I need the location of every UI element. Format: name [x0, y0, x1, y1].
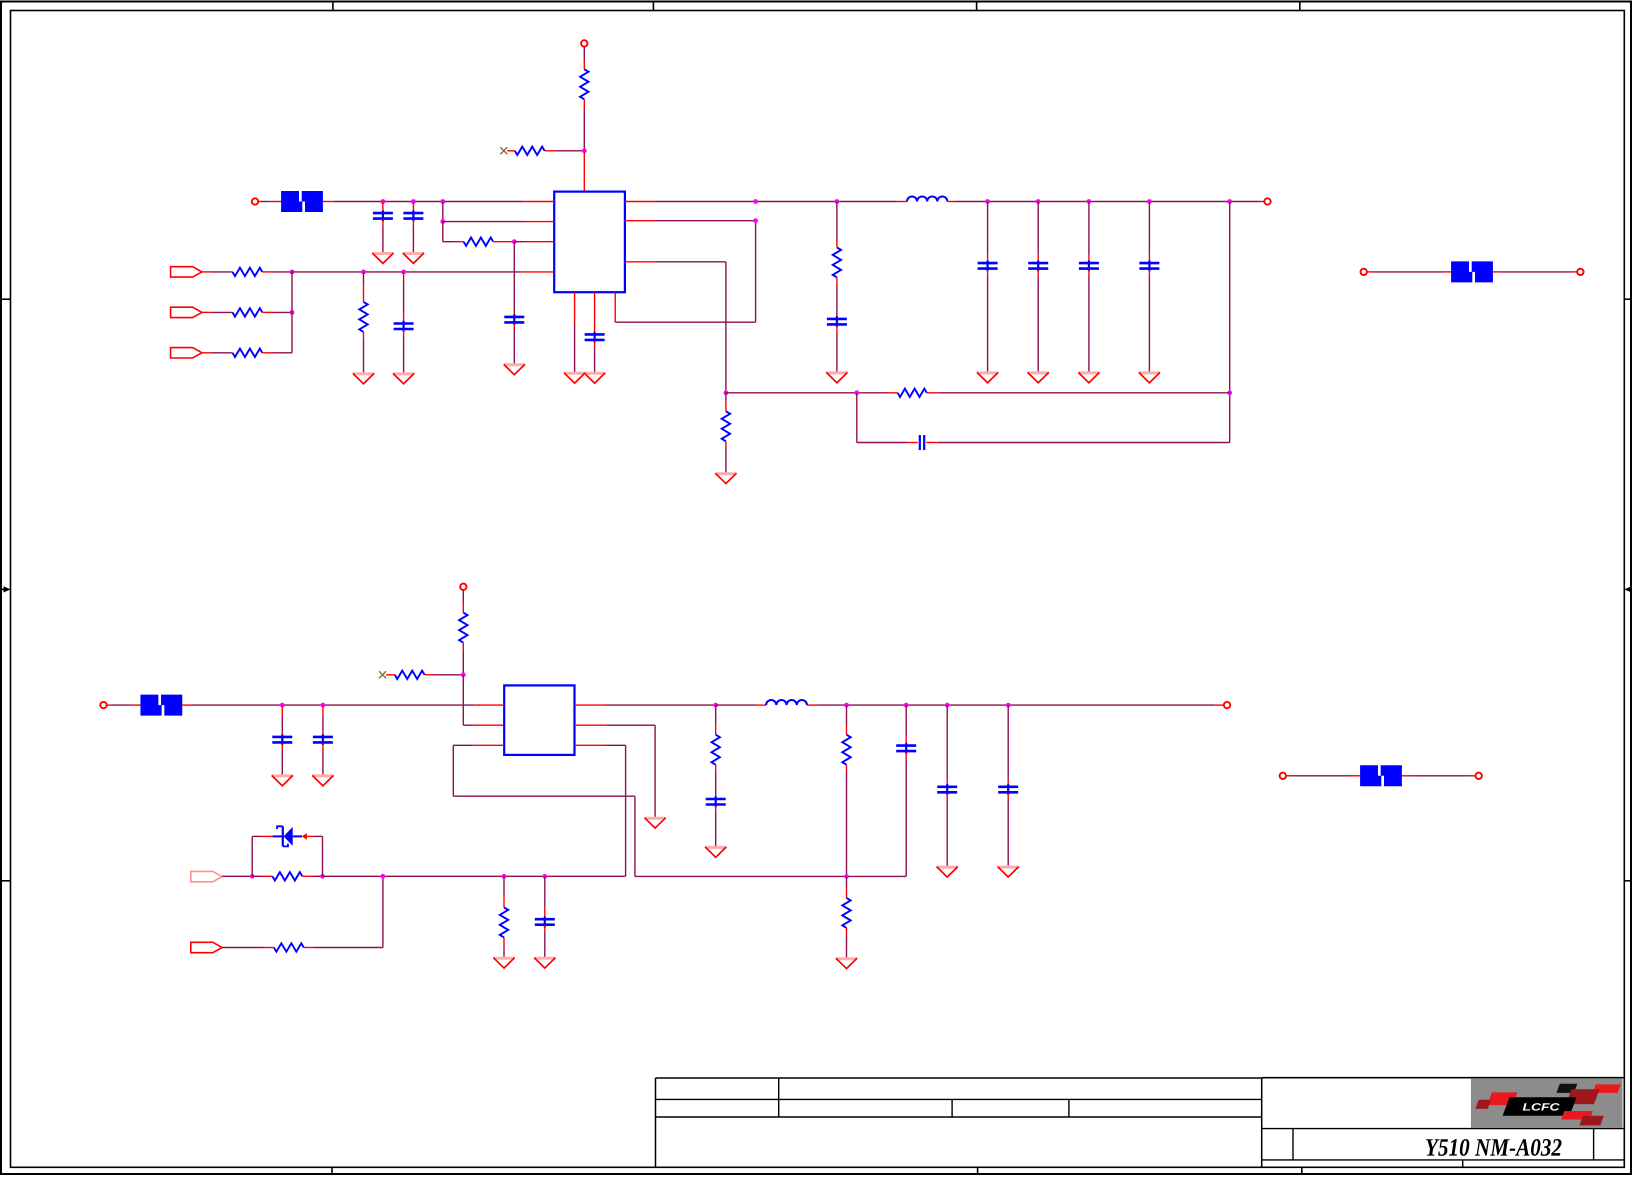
ground under snubber	[826, 372, 847, 382]
connector CN5 (bottom)	[191, 942, 222, 952]
resistor (pullup, top circuit)	[580, 69, 588, 99]
wire port to jumper (bottom right)	[1286, 775, 1360, 777]
wire pullup to node EN2	[462, 643, 464, 675]
junction sense rail / CN1	[290, 270, 295, 275]
wire C2 to ground	[412, 220, 414, 253]
wire resistor to diode right node	[302, 875, 322, 877]
wire diode loop left vertical	[252, 836, 272, 876]
wire input port to jumper (bottom)	[107, 704, 141, 706]
wire from pullup resistor to node EN	[583, 99, 585, 151]
capacitor C1 (input)	[373, 211, 393, 222]
junction FB rail / filter cap	[542, 874, 547, 879]
wire CN4 to rail	[222, 875, 252, 877]
wire series resistor to node EN2	[425, 674, 464, 676]
wire IC out pin2	[625, 220, 756, 222]
wire rail to C12	[946, 705, 948, 786]
junction sense rail / C4	[401, 270, 406, 275]
resistor (no-connect series, top circuit)	[515, 147, 545, 155]
power port (top circuit VIN pullup)	[581, 40, 587, 46]
capacitor (snubber, bottom)	[706, 796, 726, 807]
wire C13 to ground	[1007, 793, 1009, 865]
no-connect X (bottom circuit)	[379, 671, 386, 678]
output port (top rail)	[1264, 198, 1270, 204]
port left of series jumper (top)	[1361, 269, 1367, 275]
port right of series jumper (top)	[1577, 269, 1583, 275]
junction bottom rail / divider top	[844, 703, 849, 708]
junction sense rail / R divider	[361, 270, 366, 275]
wire FB rail to divider resistor lower	[846, 876, 848, 898]
wire U2 out pin1 to rail	[575, 704, 716, 706]
resistor (divider upper, bottom)	[842, 735, 850, 765]
junction bottom rail / feedforward cap	[904, 703, 909, 708]
power port (bottom circuit pullup)	[460, 584, 466, 590]
wire resistor to sense rail	[262, 271, 292, 273]
jumper/fuse F4 (bottom right)	[1360, 765, 1402, 786]
junction node EN2	[461, 672, 466, 677]
junction pin2 row	[440, 219, 445, 224]
resistor (CN1 series)	[233, 268, 263, 276]
junction bottom rail / C11	[321, 703, 326, 708]
wire C4 to ground	[403, 330, 405, 373]
wire pin3 node to IC pin 3	[514, 241, 554, 243]
ground under snubber (bottom)	[705, 847, 726, 857]
wire rail to inductor (bottom)	[716, 704, 766, 706]
wire IC pin FB to divider	[625, 262, 726, 393]
capacitor (feedforward, bottom)	[896, 743, 916, 754]
ground under feedback resistor	[715, 473, 736, 483]
wire snubber resistor to cap (bottom)	[715, 765, 717, 799]
wire Cout4 to ground	[1148, 270, 1150, 372]
junction FB node	[724, 390, 729, 395]
wire U2 pin2 to ground	[575, 725, 656, 817]
jumper/fuse F1 (top rail)	[281, 191, 323, 212]
resistor (CN2 series)	[233, 308, 263, 316]
resistor (no-connect series, bottom)	[395, 671, 425, 679]
capacitor C10 (input, bottom)	[272, 734, 292, 745]
junction bottom out rail / snubber	[713, 703, 718, 708]
wire rail to feedforward cap (bottom)	[905, 705, 907, 745]
capacitor Cout4 (output)	[1139, 261, 1159, 272]
wire rail to snubber resistor (bottom)	[715, 705, 717, 735]
output port (bottom rail)	[1224, 702, 1230, 708]
input port (bottom rail)	[100, 702, 106, 708]
resistor (FB pulldown, bottom)	[500, 907, 508, 937]
wire Cout2 to ground	[1037, 270, 1039, 372]
capacitor C11 (input, bottom)	[313, 734, 333, 745]
wire input port to jumper	[258, 201, 281, 203]
ground under C5	[584, 373, 605, 383]
junction pin3 node	[512, 239, 517, 244]
capacitor C12 (output, bottom)	[937, 784, 957, 795]
wire IC out pin1 to output rail	[625, 201, 897, 203]
junction output rail / Cout3	[1087, 199, 1092, 204]
junction FB rail / CN5 branch	[381, 874, 386, 879]
wire Cout1 to ground	[987, 270, 989, 372]
inductor L2 (bottom)	[766, 700, 807, 705]
wire resistor to ground	[363, 332, 365, 373]
ground under Cout1	[977, 372, 998, 382]
ground under FB filter cap	[534, 958, 555, 968]
ground under C10	[272, 775, 293, 785]
ground under sense resistor	[353, 373, 374, 383]
port left of series jumper (bottom)	[1280, 773, 1286, 779]
wire jumper to port (bottom right)	[1402, 775, 1476, 777]
wire divider lower to ground	[846, 928, 848, 958]
resistor (pullup, bottom)	[459, 613, 467, 643]
wire Cout3 to ground	[1088, 270, 1090, 372]
wire snubber capacitor to ground	[836, 326, 838, 372]
ground under IC pin A	[564, 373, 585, 383]
input connector CN2 (middle)	[171, 307, 202, 317]
wire comp branch down-right	[857, 393, 918, 443]
wire rail to C11	[322, 705, 324, 736]
wire pulldown resistor to ground	[503, 937, 505, 957]
port right of series jumper (bottom)	[1476, 773, 1482, 779]
ground under C1	[372, 253, 393, 263]
capacitor C3 (soft-start)	[504, 314, 524, 325]
wire feedforward cap to feedback tap	[926, 442, 1229, 444]
wire port to jumper (top right)	[1367, 271, 1452, 273]
resistor (CN5 series)	[274, 943, 304, 951]
wire no-connect to series resistor	[507, 150, 515, 152]
junction feedback vertical / rail2	[1227, 390, 1232, 395]
capacitor C5 (bootstrap)	[585, 332, 605, 343]
wire no-connect to series resistor (bottom)	[386, 674, 395, 676]
wire lower resistor to ground	[725, 441, 727, 472]
jumper/fuse F2 (top right)	[1451, 261, 1493, 282]
ground under C3	[504, 364, 525, 374]
wire CN5 resistor to FB rail	[304, 876, 383, 947]
resistor (divider lower, bottom)	[842, 898, 850, 928]
ground under C12	[937, 867, 958, 877]
wire FB rail right segment	[927, 392, 1230, 394]
input port (top rail)	[252, 198, 258, 204]
wire IC GND pin to ground	[574, 292, 576, 372]
junction FB rail / pulldown resistor	[502, 874, 507, 879]
wire rail to capacitor C1	[382, 202, 384, 213]
capacitor (snubber, top)	[827, 316, 847, 327]
wire sense rail to IC pin 4	[292, 271, 554, 273]
wire FB rail left segment	[726, 392, 898, 394]
junction FB rail / divider	[844, 874, 849, 879]
wire feedback tap vertical	[1229, 202, 1231, 443]
wire C5 to ground	[594, 341, 596, 372]
junction bottom rail / C10	[280, 703, 285, 708]
ground under Cout4	[1139, 372, 1160, 382]
resistor (snubber, top)	[833, 247, 841, 277]
ground under Cout2	[1028, 372, 1049, 382]
capacitor C13 (output, bottom)	[998, 784, 1018, 795]
wire jumper to port (top right)	[1493, 271, 1578, 273]
ground under C13	[998, 867, 1019, 877]
wire divider upper to FB rail	[846, 765, 848, 877]
wire CN2 to resistor	[202, 311, 233, 313]
wire inductor to output caps	[947, 201, 1264, 203]
wire snubber resistor to capacitor	[836, 277, 838, 318]
wire port to pullup resistor (bottom)	[462, 590, 464, 613]
junction top rail / C2	[411, 199, 416, 204]
wire C11 to ground	[322, 744, 324, 775]
wire pin2 junction down to pin3 row	[443, 222, 464, 242]
wire rail to Cout3	[1088, 202, 1090, 263]
junction output rail / feedback tap	[1227, 199, 1232, 204]
document number text	[1426, 1139, 1561, 1156]
wire rail to inductor	[897, 201, 908, 203]
wire IC U2 pin3 loop	[453, 745, 906, 876]
resistor (IC pin3 series, top)	[464, 238, 494, 246]
ground under FB pulldown	[493, 958, 514, 968]
resistor (feedback series)	[898, 389, 927, 397]
junction bottom rail / C13	[1006, 703, 1011, 708]
wire from power port to resistor	[583, 47, 585, 70]
capacitor (FB filter, bottom)	[535, 917, 555, 928]
ground under Cout3	[1078, 372, 1099, 382]
wire CN5 to resistor	[222, 947, 274, 949]
wire inductor to output (bottom)	[807, 704, 1224, 706]
resistor (feedback lower)	[722, 411, 730, 441]
capacitor Cout2 (output)	[1028, 261, 1048, 272]
wire diode loop right vertical	[307, 836, 323, 876]
jumper/fuse F3 (bottom rail)	[140, 695, 182, 716]
input connector CN1 (top)	[171, 267, 202, 277]
ground under C2	[403, 253, 424, 263]
wire U2 FB pin3	[575, 745, 626, 876]
wire jumper to IC pin VIN rail	[323, 201, 555, 203]
junction pin2 net vertical	[753, 218, 758, 223]
wire CN3 to resistor	[202, 352, 233, 354]
wire rail down to C4	[403, 272, 405, 323]
wire CN1 to resistor	[202, 271, 233, 273]
wire FB node to lower resistor	[725, 393, 727, 412]
junction top rail / pin2 feed	[440, 199, 445, 204]
wire IC pin to feedback loop	[615, 221, 755, 323]
junction output rail / Cout1	[985, 199, 990, 204]
wire FB rail to filter cap	[544, 876, 546, 918]
ground under U2 pin2	[645, 818, 666, 828]
connector CN4 (bottom, highlighted)	[191, 871, 222, 881]
junction CN4 rail / diode right	[320, 874, 325, 879]
wire rail to snubber resistor	[836, 202, 838, 248]
wire rail to C10	[281, 705, 283, 736]
wire C12 to ground	[946, 793, 948, 865]
IC U2 (bottom buck converter)	[504, 685, 574, 755]
junction output rail / RC snubber	[835, 199, 840, 204]
wire resistor to CN2 node	[262, 311, 292, 313]
wire FB rail to pulldown resistor	[503, 876, 505, 907]
wire C10 to ground	[281, 744, 283, 775]
junction output rail / Cout4	[1147, 199, 1152, 204]
ground under C11	[312, 775, 333, 785]
capacitor C2 (input)	[403, 211, 423, 222]
wire to IC pin 2	[443, 221, 554, 223]
capacitor (feedforward)	[920, 435, 924, 450]
junction output rail / Cout2	[1036, 199, 1041, 204]
inductor L1 (top)	[907, 196, 947, 201]
wire rail to Cout2	[1037, 202, 1039, 263]
ground under divider (bottom)	[836, 958, 857, 968]
wire feedforward cap to FB rail corner	[905, 752, 907, 876]
wire rail down to IC pin 2 row	[442, 202, 444, 222]
wire series resistor to node EN	[545, 150, 585, 152]
junction output rail / pin2 net	[753, 199, 758, 204]
wire resistor to CN3 corner	[262, 352, 292, 354]
wire jumper to IC U2 pin1	[182, 704, 504, 706]
pin wire EN to IC top	[583, 151, 585, 192]
junction node EN	[582, 148, 587, 153]
capacitor Cout1 (output)	[978, 261, 998, 272]
wire rail to series resistor (CN4)	[252, 875, 272, 877]
input connector CN3 (bottom)	[171, 348, 202, 358]
junction bottom rail / C12	[945, 703, 950, 708]
wire rail to Cout4	[1148, 202, 1150, 263]
capacitor Cout3 (output)	[1079, 261, 1099, 272]
junction CN4 rail / diode left	[250, 874, 255, 879]
wire bottom FB rail	[323, 875, 626, 877]
IC U1 (top buck converter)	[554, 192, 625, 293]
LCFC logo	[1471, 1079, 1623, 1128]
wire resistor to pin3 node	[493, 241, 514, 243]
resistor (snubber, bottom)	[712, 735, 720, 765]
zener diode D1 (clamp)	[273, 826, 302, 846]
capacitor C4 (sense filter)	[394, 321, 414, 332]
resistor (sense pulldown)	[359, 302, 367, 332]
wire IC pin to C5	[594, 292, 596, 334]
junction FB rail / comp branch	[854, 390, 859, 395]
wire rail to divider resistor upper	[846, 705, 848, 735]
resistor (CN4 series)	[272, 872, 302, 880]
no-connect X (top circuit)	[500, 147, 507, 154]
wire filter cap to ground	[544, 926, 546, 957]
wire C3 to ground	[513, 324, 515, 364]
junction top rail / C1	[381, 199, 386, 204]
wire rail to capacitor C2	[412, 202, 414, 213]
polarity arrow on D1	[302, 833, 307, 840]
wire pin3 node down to C3	[513, 242, 515, 317]
wire EN2 down to IC pin 2	[463, 675, 504, 725]
wire rail to Cout1	[987, 202, 989, 263]
wire C1 to ground	[382, 220, 384, 253]
wire rail to C13	[1007, 705, 1009, 786]
junction sense rail / CN2	[290, 310, 295, 315]
ground under C4	[393, 373, 414, 383]
wire vertical joining CN1-CN3	[291, 272, 293, 353]
wire snubber cap to ground (bottom)	[715, 806, 717, 847]
resistor (CN3 series)	[233, 349, 263, 357]
wire rail down to resistor	[363, 272, 365, 302]
